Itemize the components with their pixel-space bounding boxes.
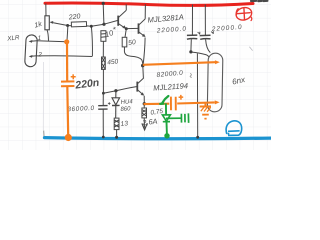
node D junction (Q1 emitter / Q2 base / R50)	[125, 27, 128, 30]
svg-text:HU4: HU4	[121, 99, 134, 106]
green annotation arrow	[160, 96, 168, 104]
capacitor 36000 body	[98, 93, 110, 136]
wire Q3 emitter to node H	[143, 96, 145, 104]
svg-text:450: 450	[107, 58, 119, 66]
node E junction	[102, 92, 105, 95]
speaker symbol (blue)	[226, 121, 242, 136]
output connector body	[207, 53, 223, 112]
svg-text:13: 13	[120, 120, 128, 128]
svg-text:220: 220	[67, 13, 80, 21]
capacitor 220n body (orange)	[61, 74, 76, 135]
resistor 450 body	[102, 57, 106, 69]
node C junction	[102, 23, 105, 26]
junction on GND rail	[102, 136, 105, 139]
svg-text:36000.0: 36000.0	[67, 105, 95, 113]
wire R13 to GND rail	[116, 130, 118, 137]
transistor Q3	[137, 82, 144, 96]
wire R10k to R450	[102, 41, 104, 57]
node F junction	[141, 64, 144, 67]
orange junction on GND rail	[65, 134, 72, 141]
wire node D down to R50	[125, 29, 126, 38]
wire node D to Q2 base	[126, 27, 138, 29]
capacitor C2 body	[200, 5, 214, 53]
paper crease	[42, 62, 44, 130]
transistor Q2	[139, 4, 146, 37]
wire pin1 to input node	[37, 41, 67, 42]
wire pot top to V+ rail	[45, 4, 47, 16]
node H junction	[143, 102, 146, 105]
green capacitor branch	[166, 117, 181, 119]
wire R50 bottom to node F	[124, 47, 142, 65]
node B junction	[90, 25, 93, 28]
wire node C up to V+ rail	[102, 4, 105, 24]
resistor 10k body	[101, 31, 106, 42]
wire node G down to GND rail	[196, 54, 198, 137]
wire Q2 emitter down to node F	[143, 38, 145, 66]
node V+ rail (red positive supply rail)	[45, 3, 253, 5]
capacitor (orange) on output 2	[171, 95, 183, 111]
junction on GND rail	[196, 136, 199, 139]
node G junction (cap bottoms)	[189, 50, 192, 53]
wire feedback vertical to R220 node	[91, 27, 92, 57]
capacitor C1 body	[187, 5, 200, 52]
orange wire output 1	[143, 62, 215, 65]
orange wire input down	[66, 42, 68, 81]
power terminal + symbol	[235, 6, 254, 22]
wire R450 down to node E	[102, 69, 104, 93]
green wire to GND rail	[166, 122, 168, 134]
svg-text:50: 50	[128, 39, 137, 47]
connector XLR body	[25, 35, 38, 67]
ground symbol (orange)	[200, 103, 211, 119]
svg-text:860: 860	[120, 106, 131, 113]
transistor Q1	[118, 4, 126, 28]
pin 2 arrow	[31, 55, 37, 58]
stray pencil mark right	[249, 47, 252, 51]
wire node A down to input node	[66, 26, 69, 42]
wire node C to Q1 base	[104, 20, 118, 24]
orange wire output 2 right segment	[177, 102, 215, 103]
wire pin2 feedback	[37, 55, 92, 58]
node GND rail (blue bottom rail)	[45, 138, 272, 139]
potentiometer 1k body	[45, 16, 49, 30]
wire node G to output connector top	[191, 52, 209, 57]
svg-text:XLR: XLR	[6, 34, 20, 42]
pin 1 arrow	[31, 40, 37, 43]
pot wiper arrow	[52, 22, 56, 25]
node A junction	[66, 24, 69, 27]
resistor 50 body	[122, 37, 127, 47]
green wire down	[165, 103, 167, 115]
wire node F down to Q3 collector	[138, 66, 144, 84]
wire Q3 base from node E	[103, 87, 137, 94]
green junction on GND rail	[164, 133, 169, 138]
node I junction (diode branch)	[114, 89, 117, 92]
junction on V+ rail	[102, 2, 105, 5]
orange input node dot	[64, 39, 69, 44]
green capacitor bars	[181, 113, 188, 123]
current-source box below node H	[142, 104, 147, 130]
green diode body	[162, 115, 170, 122]
orange wire output 2 left segment	[144, 103, 170, 106]
resistor 13 body	[114, 118, 119, 130]
junction on GND rail	[115, 136, 118, 139]
wire R220 to node B	[87, 24, 105, 26]
wire pot bottom to pin1 wire	[47, 30, 49, 42]
svg-text:2,6A: 2,6A	[141, 117, 158, 128]
diode D1 body	[112, 91, 120, 118]
resistor 220 body	[71, 22, 86, 27]
svg-text:2: 2	[37, 52, 42, 59]
wire wiper to Q1 base	[56, 23, 72, 26]
stray pencil mark	[190, 73, 192, 77]
wire stub above rail start	[43, 131, 45, 137]
cut-off text at top edge	[251, 0, 267, 2]
